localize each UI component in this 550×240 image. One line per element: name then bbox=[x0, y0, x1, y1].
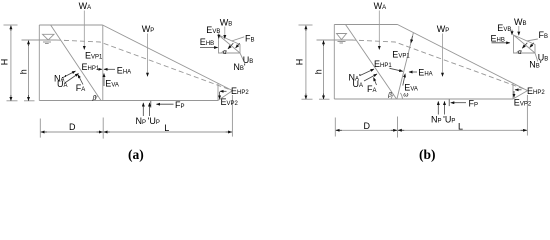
svg-text:(a): (a) bbox=[128, 147, 144, 162]
svg-text:EVP2: EVP2 bbox=[514, 98, 532, 108]
svg-text:WA: WA bbox=[374, 1, 387, 11]
svg-text:EHP2: EHP2 bbox=[527, 86, 545, 96]
svg-text:EVB: EVB bbox=[497, 23, 511, 33]
svg-text:FB: FB bbox=[539, 30, 549, 40]
svg-text:(b): (b) bbox=[419, 147, 436, 162]
svg-text:FA: FA bbox=[76, 83, 86, 93]
svg-text:WA: WA bbox=[79, 1, 92, 11]
svg-text:β: β bbox=[387, 92, 392, 99]
svg-text:h: h bbox=[313, 69, 323, 74]
svg-text:h: h bbox=[18, 69, 28, 74]
svg-text:EVP2: EVP2 bbox=[221, 97, 239, 107]
svg-text:FA: FA bbox=[367, 84, 377, 94]
svg-text:EHA: EHA bbox=[418, 68, 432, 78]
svg-text:WB: WB bbox=[514, 17, 527, 27]
svg-text:NP'UP: NP'UP bbox=[136, 116, 160, 126]
svg-text:H: H bbox=[295, 59, 305, 66]
svg-text:EHP1: EHP1 bbox=[374, 59, 392, 69]
svg-text:EHP2: EHP2 bbox=[231, 86, 249, 96]
svg-text:EVB: EVB bbox=[206, 25, 220, 35]
svg-text:WB: WB bbox=[220, 17, 233, 27]
svg-text:NB': NB' bbox=[529, 59, 542, 69]
svg-text:FB: FB bbox=[245, 34, 255, 44]
svg-text:L: L bbox=[164, 123, 169, 133]
svg-text:D: D bbox=[364, 121, 371, 131]
svg-text:α: α bbox=[223, 49, 227, 56]
svg-text:β: β bbox=[92, 94, 97, 101]
svg-text:D: D bbox=[69, 122, 76, 132]
svg-text:EHB: EHB bbox=[200, 37, 214, 47]
svg-text:FP: FP bbox=[175, 100, 185, 110]
svg-text:EVP1: EVP1 bbox=[392, 50, 410, 60]
svg-text:EVA: EVA bbox=[105, 79, 119, 89]
svg-text:EVP1: EVP1 bbox=[85, 51, 103, 61]
svg-text:UA: UA bbox=[353, 79, 364, 89]
svg-text:WP: WP bbox=[437, 24, 450, 34]
svg-text:EHB: EHB bbox=[491, 33, 505, 43]
svg-text:H: H bbox=[0, 59, 10, 66]
svg-text:NB': NB' bbox=[233, 62, 246, 72]
svg-text:ω: ω bbox=[403, 91, 408, 98]
svg-text:NP'UP: NP'UP bbox=[431, 114, 455, 124]
svg-text:α: α bbox=[518, 49, 522, 56]
svg-text:EHA: EHA bbox=[117, 66, 131, 76]
svg-text:WP: WP bbox=[142, 24, 155, 34]
svg-text:EHP1: EHP1 bbox=[82, 62, 100, 72]
svg-text:L: L bbox=[458, 121, 463, 131]
svg-text:FP: FP bbox=[469, 99, 479, 109]
